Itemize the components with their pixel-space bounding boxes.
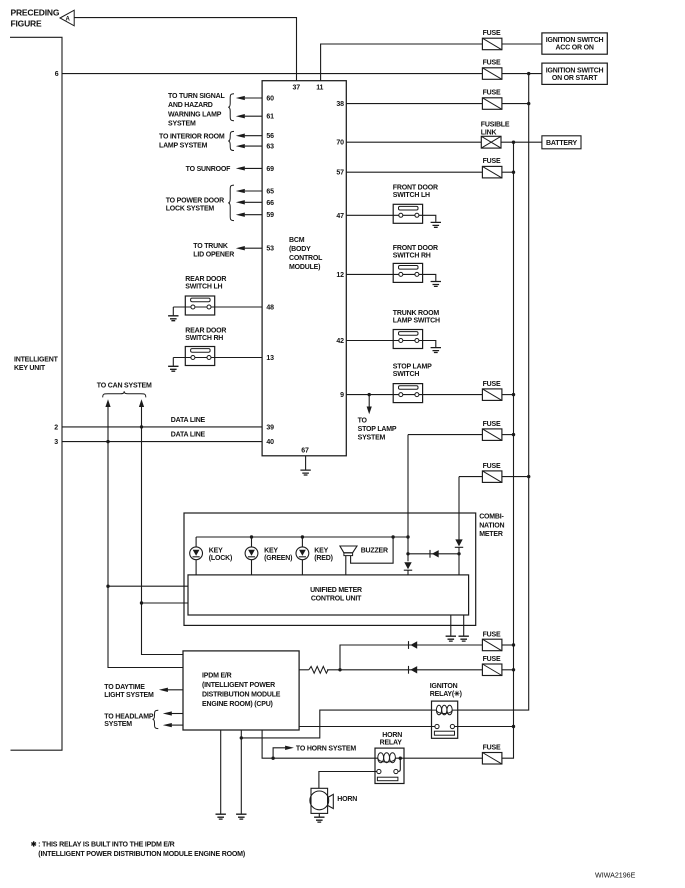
front door switch RH bbox=[393, 263, 422, 282]
ground unified meter 1 bbox=[446, 636, 456, 641]
note: relay built into IPDM bbox=[31, 841, 245, 858]
svg-text:FUSIBLE: FUSIBLE bbox=[481, 122, 510, 129]
wire ignition relay coil to IPDM ground line bbox=[241, 710, 431, 738]
svg-text:3: 3 bbox=[54, 439, 58, 446]
svg-text:LOCK SYSTEM: LOCK SYSTEM bbox=[166, 205, 215, 212]
junction dot CAN2 branch bbox=[140, 601, 143, 604]
junction dot data line 2 / CAN 2 bbox=[140, 425, 143, 428]
pin 11 label bbox=[316, 85, 323, 92]
svg-text:11: 11 bbox=[316, 85, 323, 92]
ignition switch ON box bbox=[542, 63, 607, 84]
fuse F11 bbox=[482, 753, 502, 765]
junction dot D1 node bbox=[406, 552, 409, 555]
pin 9 label bbox=[340, 392, 344, 399]
svg-text:FUSE: FUSE bbox=[483, 158, 501, 165]
svg-text:57: 57 bbox=[336, 170, 344, 177]
wire IPDM ground 2 bbox=[240, 730, 242, 814]
svg-text:RELAY(✳): RELAY(✳) bbox=[430, 690, 462, 698]
fuse F2 bbox=[482, 68, 502, 80]
svg-text:MODULE): MODULE) bbox=[289, 264, 320, 271]
svg-text:61: 61 bbox=[266, 114, 274, 121]
svg-text:DATA LINE: DATA LINE bbox=[171, 432, 206, 439]
wire BCM pin 13 to rear door switch RH bbox=[173, 357, 262, 359]
svg-text:TO: TO bbox=[358, 418, 368, 425]
wire+ground rear door switch RH bbox=[172, 358, 174, 366]
label TO HEADLAMP SYSTEM bbox=[104, 714, 154, 729]
svg-text:SWITCH RH: SWITCH RH bbox=[185, 335, 223, 342]
wire combination meter supply from F8 bbox=[458, 477, 460, 540]
svg-text:FUSE: FUSE bbox=[483, 30, 501, 37]
junction dot battery rail top bbox=[512, 141, 515, 144]
pin 3 of intelligent key unit bbox=[54, 439, 58, 446]
junction dot buzzer/bus bbox=[391, 535, 394, 538]
svg-text:37: 37 bbox=[293, 85, 301, 92]
svg-text:IGNITON: IGNITON bbox=[430, 683, 458, 690]
svg-text:TO HEADLAMP: TO HEADLAMP bbox=[104, 714, 154, 721]
wire pin6 to fuse F2 bbox=[62, 73, 482, 75]
wire fuse F9 to battery rail bbox=[502, 644, 514, 646]
ground front door switch RH bbox=[431, 282, 441, 287]
ground horn bbox=[314, 817, 324, 822]
diode D2 (horizontal) bbox=[430, 550, 439, 558]
svg-text:FUSE: FUSE bbox=[483, 745, 501, 752]
svg-text:SWITCH LH: SWITCH LH bbox=[185, 284, 222, 291]
combination meter box bbox=[184, 513, 476, 625]
ground IPDM 1 bbox=[216, 814, 226, 819]
ground front door switch LH bbox=[431, 222, 441, 227]
wire horn relay coil to fuse F11 bbox=[395, 757, 482, 759]
wire+arrow BCM pin 61 bbox=[236, 114, 262, 118]
wire+arrow BCM pin 56 bbox=[236, 134, 262, 138]
trunk room lamp switch bbox=[393, 330, 422, 349]
wire BCM pin 38 to fuse F3 bbox=[346, 103, 482, 105]
wire diode D3 to unified meter bbox=[458, 547, 460, 575]
svg-text:(GREEN): (GREEN) bbox=[264, 555, 292, 562]
intelligent key unit rail bbox=[10, 37, 62, 750]
label BCM (BODY CONTROL MODULE) bbox=[289, 237, 323, 271]
pin 39 label bbox=[266, 424, 274, 431]
svg-text:FUSE: FUSE bbox=[483, 381, 501, 388]
node A connector to preceding figure (triangle) bbox=[60, 10, 74, 26]
svg-text:DATA LINE: DATA LINE bbox=[171, 417, 206, 424]
wire LED lock to unified meter bbox=[195, 560, 197, 575]
wire fuse F6 to battery rail bbox=[502, 394, 514, 396]
svg-text:65: 65 bbox=[266, 189, 274, 196]
diode D3 (vertical, F8 branch) bbox=[455, 539, 463, 547]
wire LED red to unified meter bbox=[301, 560, 303, 575]
svg-text:SWITCH LH: SWITCH LH bbox=[393, 192, 430, 199]
svg-text:TO SUNROOF: TO SUNROOF bbox=[186, 166, 231, 173]
horn bbox=[310, 788, 333, 813]
wire combination meter supply from F7 bbox=[407, 435, 409, 562]
wire fuse F7 to battery rail bbox=[502, 434, 514, 436]
label TO HORN SYSTEM bbox=[296, 745, 356, 752]
brace power door lock group bbox=[228, 185, 234, 221]
svg-text:SYSTEM: SYSTEM bbox=[358, 435, 386, 442]
label PRECEDING FIGURE bbox=[11, 8, 60, 29]
battery feed rail (to fuses and relays) bbox=[502, 142, 514, 758]
ignition switch ACC box bbox=[542, 33, 607, 54]
rear door switch RH bbox=[185, 347, 214, 366]
svg-text:ON OR START: ON OR START bbox=[552, 75, 598, 82]
svg-text:SYSTEM: SYSTEM bbox=[168, 121, 196, 128]
svg-text:IGNITION SWITCH: IGNITION SWITCH bbox=[546, 67, 604, 74]
label FUSE F6 bbox=[483, 381, 501, 388]
front door switch LH bbox=[393, 204, 422, 223]
svg-text:LID OPENER: LID OPENER bbox=[193, 251, 234, 258]
label TO POWER DOOR LOCK SYSTEM bbox=[166, 198, 224, 213]
svg-text:UNIFIED METER: UNIFIED METER bbox=[310, 587, 362, 594]
svg-text:2: 2 bbox=[54, 424, 58, 431]
ground trunk room lamp switch bbox=[431, 348, 441, 353]
wire cross diode link bbox=[408, 553, 459, 555]
wire+arrow BCM pin 53 bbox=[236, 246, 262, 250]
svg-text:60: 60 bbox=[266, 96, 274, 103]
pin 67 label bbox=[301, 448, 309, 455]
svg-text:HORN: HORN bbox=[382, 732, 402, 739]
svg-text:9: 9 bbox=[340, 392, 344, 399]
svg-text:KEY UNIT: KEY UNIT bbox=[14, 365, 46, 372]
wire horn to ground bbox=[318, 813, 320, 816]
svg-text:FUSE: FUSE bbox=[483, 90, 501, 97]
svg-text:SWITCH: SWITCH bbox=[393, 371, 420, 378]
label INTELLIGENT KEY UNIT bbox=[14, 357, 59, 372]
pin 57 label bbox=[336, 170, 344, 177]
junction dot fuse F3 bbox=[527, 102, 530, 105]
wire unified meter ground 2 bbox=[463, 615, 465, 636]
junction dot resistor node bbox=[338, 668, 341, 671]
svg-text:(RED): (RED) bbox=[314, 555, 332, 562]
label IGNITION SWITCH ACC OR ON bbox=[546, 37, 604, 52]
resistor R1 bbox=[309, 666, 328, 673]
key LED (green) bbox=[245, 547, 258, 560]
fuse F7 bbox=[482, 429, 502, 441]
wire fuse F8 to combination meter bbox=[459, 476, 482, 478]
wire BCM pin 70 to fusible link bbox=[346, 141, 481, 143]
label TO SUNROOF bbox=[186, 166, 231, 173]
wire+arrow to headlamp system 1 bbox=[163, 711, 183, 715]
svg-text:CONTROL: CONTROL bbox=[289, 255, 323, 262]
svg-text:13: 13 bbox=[266, 355, 274, 362]
junction dot fuse F7 bbox=[512, 433, 515, 436]
wire data line pin2 to BCM pin 39 bbox=[62, 426, 262, 428]
junction dot fuse F5 bbox=[512, 171, 515, 174]
wire fuse F8 to ignition rail bbox=[502, 476, 529, 478]
key LED (lock) bbox=[190, 547, 203, 560]
svg-text:✱ : THIS RELAY IS BUILT INTO T: ✱ : THIS RELAY IS BUILT INTO THE IPDM E/… bbox=[31, 841, 175, 849]
label KEY (RED) bbox=[314, 548, 332, 563]
pin 42 label bbox=[336, 338, 344, 345]
BCM (body control module) box bbox=[262, 81, 346, 456]
label TRUNK ROOM LAMP SWITCH bbox=[393, 310, 440, 325]
fusible link bbox=[481, 136, 501, 148]
wire+arrow BCM pin 63 bbox=[236, 144, 262, 148]
junction dot horn relay coil bbox=[399, 757, 402, 760]
svg-text:REAR DOOR: REAR DOOR bbox=[185, 276, 226, 283]
pin 6 of intelligent key unit bbox=[55, 71, 59, 78]
fuse F6 bbox=[482, 389, 502, 401]
wire data line pin3 to BCM pin 40 bbox=[62, 441, 262, 443]
svg-text:47: 47 bbox=[336, 213, 344, 220]
wire+arrow to daytime light system bbox=[159, 688, 183, 692]
svg-text:(LOCK): (LOCK) bbox=[209, 555, 232, 562]
label TO TURN SIGNAL AND HAZARD WARNING LAMP SYSTEM bbox=[168, 93, 225, 128]
pin 56 label bbox=[266, 133, 274, 140]
wire fusible link to battery bbox=[501, 141, 542, 143]
pin 53 label bbox=[266, 246, 274, 253]
label KEY (LOCK) bbox=[209, 548, 232, 563]
svg-text:FUSE: FUSE bbox=[483, 60, 501, 67]
label FUSE F9 bbox=[483, 631, 501, 638]
svg-text:REAR DOOR: REAR DOOR bbox=[185, 328, 226, 335]
wire CAN1 branch to unified meter control unit bbox=[108, 585, 188, 587]
wire IPDM resistor line bbox=[299, 669, 309, 671]
svg-text:39: 39 bbox=[266, 424, 274, 431]
fuse F8 bbox=[482, 471, 502, 483]
junction dot CAN1 branch bbox=[106, 585, 109, 588]
wire+arrow BCM pin 66 bbox=[236, 200, 262, 204]
svg-text:FUSE: FUSE bbox=[483, 421, 501, 428]
pin 69 label bbox=[266, 166, 274, 173]
svg-text:FIGURE: FIGURE bbox=[11, 18, 42, 28]
wire+arrow BCM pin 59 bbox=[236, 213, 262, 217]
ignition relay contacts bbox=[434, 724, 454, 735]
key LED (red) bbox=[296, 547, 309, 560]
svg-text:66: 66 bbox=[266, 200, 274, 207]
wire buzzer to unified meter bbox=[345, 556, 347, 575]
svg-text:RELAY: RELAY bbox=[380, 740, 403, 747]
diode D1 (vertical, F7 branch) bbox=[404, 562, 412, 570]
fuse F1 bbox=[482, 38, 502, 50]
label BATTERY bbox=[546, 140, 577, 147]
svg-text:ACC OR ON: ACC OR ON bbox=[555, 45, 593, 52]
svg-text:LAMP SWITCH: LAMP SWITCH bbox=[393, 318, 440, 325]
ground unified meter 2 bbox=[459, 636, 469, 641]
svg-text:(INTELLIGENT POWER DISTRIBUTIO: (INTELLIGENT POWER DISTRIBUTION MODULE E… bbox=[38, 851, 245, 858]
svg-text:FRONT DOOR: FRONT DOOR bbox=[393, 245, 438, 252]
label FUSE F8 bbox=[483, 463, 501, 470]
junction dot horn system branch bbox=[271, 757, 274, 760]
wire CAN line 1 (to IPDM) bbox=[105, 399, 183, 667]
svg-text:TO DAYTIME: TO DAYTIME bbox=[104, 684, 145, 691]
wire BCM pin 47 to front door switch LH bbox=[346, 215, 436, 222]
wire IPDM ground 1 bbox=[220, 730, 222, 814]
svg-text:(BODY: (BODY bbox=[289, 246, 311, 253]
wire+arrow to horn system bbox=[273, 746, 294, 759]
svg-text:AND HAZARD: AND HAZARD bbox=[168, 102, 213, 109]
svg-text:IPDM E/R: IPDM E/R bbox=[202, 673, 232, 680]
wire+arrow to headlamp system 2 bbox=[163, 723, 183, 727]
svg-text:53: 53 bbox=[266, 246, 274, 253]
svg-text:SYSTEM: SYSTEM bbox=[104, 721, 132, 728]
svg-text:63: 63 bbox=[266, 144, 274, 151]
svg-text:FUSE: FUSE bbox=[483, 463, 501, 470]
svg-text:METER: METER bbox=[479, 531, 503, 538]
pin 12 label bbox=[336, 272, 344, 279]
label FUSIBLE LINK bbox=[481, 122, 510, 137]
wire branch to diode D4 line bbox=[340, 645, 482, 670]
ground rear door switch LH bbox=[168, 316, 178, 321]
brace interior room group bbox=[228, 131, 234, 150]
wire BCM pin 12 to front door switch RH bbox=[346, 274, 436, 281]
label REAR DOOR SWITCH RH bbox=[185, 328, 226, 343]
wire from connector A to BCM pin 37 bbox=[74, 18, 296, 81]
svg-text:DISTRIBUTION MODULE: DISTRIBUTION MODULE bbox=[202, 692, 281, 699]
svg-text:KEY: KEY bbox=[209, 548, 223, 555]
label FRONT DOOR SWITCH RH bbox=[393, 245, 438, 260]
svg-text:ENGINE ROOM) (CPU): ENGINE ROOM) (CPU) bbox=[202, 701, 273, 708]
pin 2 of intelligent key unit bbox=[54, 424, 58, 431]
wire BCM pin 9 to stop lamp switch and fuse F6 bbox=[346, 394, 482, 396]
unified meter control unit box bbox=[188, 575, 469, 615]
label TO INTERIOR ROOM LAMP SYSTEM bbox=[159, 133, 225, 149]
svg-text:LAMP SYSTEM: LAMP SYSTEM bbox=[159, 143, 208, 150]
label TO CAN SYSTEM bbox=[97, 383, 152, 390]
svg-text:KEY: KEY bbox=[264, 548, 278, 555]
rear door switch LH bbox=[185, 296, 214, 315]
wire+ground rear door switch LH bbox=[172, 307, 174, 315]
junction dot ignition relay coil return bbox=[240, 736, 243, 739]
junction dot ignition rail top bbox=[527, 72, 530, 75]
label FUSE F11 bbox=[483, 745, 501, 752]
junction dot D3 node bbox=[457, 552, 460, 555]
label IGNITION SWITCH ON OR START bbox=[546, 67, 604, 82]
wire fuse F10 to battery rail bbox=[502, 669, 514, 671]
label IGNITON RELAY(*) bbox=[430, 683, 462, 698]
ignition relay coil bbox=[432, 705, 458, 715]
svg-text:69: 69 bbox=[266, 166, 274, 173]
svg-text:FUSE: FUSE bbox=[483, 631, 501, 638]
wire IPDM to horn relay coil bbox=[262, 730, 378, 758]
wire buzzer to LED bus bbox=[351, 537, 394, 563]
svg-text:12: 12 bbox=[336, 272, 344, 279]
fuse F10 bbox=[482, 664, 502, 676]
wire fuse F3 to ignition rail bbox=[502, 103, 529, 105]
junction dot fuse F10 bbox=[512, 668, 515, 671]
svg-text:WIWA2196E: WIWA2196E bbox=[595, 871, 636, 879]
ignition relay box bbox=[432, 701, 458, 738]
junction dot ignition relay / battery rail bbox=[512, 725, 515, 728]
svg-text:WARNING LAMP: WARNING LAMP bbox=[168, 111, 222, 118]
svg-text:KEY: KEY bbox=[314, 548, 328, 555]
wire+arrow BCM pin 69 bbox=[236, 166, 262, 170]
horn relay box bbox=[375, 748, 404, 783]
svg-text:NATION: NATION bbox=[479, 523, 504, 530]
wire+arrow BCM pin 65 bbox=[236, 189, 262, 193]
svg-text:TO TRUNK: TO TRUNK bbox=[193, 243, 228, 250]
wire BCM pin 42 to trunk room lamp switch bbox=[346, 341, 436, 348]
svg-text:TO CAN SYSTEM: TO CAN SYSTEM bbox=[97, 383, 152, 390]
pin 37 label bbox=[293, 85, 301, 92]
pin 38 label bbox=[336, 101, 344, 108]
fuse F9 bbox=[482, 639, 502, 651]
label FUSE F2 bbox=[483, 60, 501, 67]
svg-text:INTELLIGENT: INTELLIGENT bbox=[14, 357, 59, 364]
svg-text:6: 6 bbox=[55, 71, 59, 78]
svg-text:CONTROL UNIT: CONTROL UNIT bbox=[311, 595, 362, 602]
label FRONT DOOR SWITCH LH bbox=[393, 184, 438, 199]
wire fuse F7 to combination meter bbox=[408, 434, 482, 436]
wire CAN line 2 (to IPDM) bbox=[139, 399, 183, 654]
pin 59 label bbox=[266, 212, 274, 219]
wire horn relay internal link bbox=[398, 758, 400, 771]
svg-text:BUZZER: BUZZER bbox=[361, 548, 388, 555]
label IPDM E/R (INTELLIGENT POWER DISTRIBUTION MODULE ENGINE ROOM) (CPU) bbox=[202, 673, 281, 709]
ground BCM pin 67 bbox=[300, 470, 310, 475]
wire BCM pin 57 to fuse F5 bbox=[346, 171, 482, 173]
label FUSE F5 bbox=[483, 158, 501, 165]
pin 13 label bbox=[266, 355, 274, 362]
junction dot fuse F6 bbox=[512, 393, 515, 396]
svg-text:42: 42 bbox=[336, 338, 344, 345]
ground IPDM 2 bbox=[236, 814, 246, 819]
wire BCM pin 48 to rear door switch LH bbox=[173, 306, 262, 308]
svg-text:FUSE: FUSE bbox=[483, 656, 501, 663]
svg-text:67: 67 bbox=[301, 448, 309, 455]
junction dot data line 3 / CAN 1 bbox=[106, 440, 109, 443]
pin 48 label bbox=[266, 305, 274, 312]
buzzer symbol bbox=[340, 546, 357, 556]
label FUSE F3 bbox=[483, 90, 501, 97]
wire BCM pin 67 to ground bbox=[305, 456, 307, 470]
label TO STOP LAMP SYSTEM bbox=[358, 418, 397, 442]
junction dot LED red bbox=[301, 535, 304, 538]
label KEY (GREEN) bbox=[264, 548, 292, 563]
IPDM E/R box bbox=[183, 651, 299, 730]
wire LED red stub bbox=[301, 537, 303, 547]
svg-text:59: 59 bbox=[266, 212, 274, 219]
wire LED green to unified meter bbox=[251, 560, 253, 575]
wire fuse F2 to ignition switch on/start bbox=[502, 73, 542, 75]
ground rear door switch RH bbox=[168, 366, 178, 371]
junction dot fuse F8 bbox=[527, 475, 530, 478]
pin 40 label bbox=[266, 439, 274, 446]
pin 70 label bbox=[336, 140, 344, 147]
fuse F5 bbox=[482, 166, 502, 178]
pin 61 label bbox=[266, 114, 274, 121]
svg-text:70: 70 bbox=[336, 140, 344, 147]
wire horn relay to horn bbox=[319, 772, 377, 789]
wire fuse F1 to ignition switch acc bbox=[502, 43, 542, 45]
brace turn signal group bbox=[228, 94, 234, 121]
svg-text:TO INTERIOR ROOM: TO INTERIOR ROOM bbox=[159, 133, 225, 140]
label TO DAYTIME LIGHT SYSTEM bbox=[104, 684, 154, 699]
figure code WIWA2196E bbox=[595, 871, 636, 879]
label HORN bbox=[337, 796, 357, 803]
wire IPDM to ignition relay switch bbox=[299, 726, 435, 728]
label HORN RELAY bbox=[380, 732, 403, 747]
label STOP LAMP SWITCH bbox=[393, 363, 432, 378]
brace headlamp group bbox=[153, 710, 159, 728]
wire CAN2 branch to unified meter control unit bbox=[142, 602, 189, 604]
wire BCM pin 11 to fuse F1 bbox=[321, 44, 483, 81]
svg-text:FRONT DOOR: FRONT DOOR bbox=[393, 184, 438, 191]
svg-text:HORN: HORN bbox=[337, 796, 357, 803]
label FUSE F1 bbox=[483, 30, 501, 37]
junction dot fuse F9 bbox=[512, 643, 515, 646]
wire+arrow to stop lamp system bbox=[367, 395, 372, 415]
pin 60 label bbox=[266, 96, 274, 103]
battery box bbox=[542, 136, 581, 149]
wire LED bus bbox=[196, 537, 408, 547]
horn relay contacts bbox=[377, 769, 398, 780]
label FUSE F7 bbox=[483, 421, 501, 428]
svg-text:COMBI-: COMBI- bbox=[479, 514, 504, 521]
svg-text:TO HORN SYSTEM: TO HORN SYSTEM bbox=[296, 745, 356, 752]
wire resistor to fuse F10 bbox=[327, 669, 482, 671]
svg-text:TO POWER DOOR: TO POWER DOOR bbox=[166, 198, 224, 205]
svg-text:38: 38 bbox=[336, 101, 344, 108]
